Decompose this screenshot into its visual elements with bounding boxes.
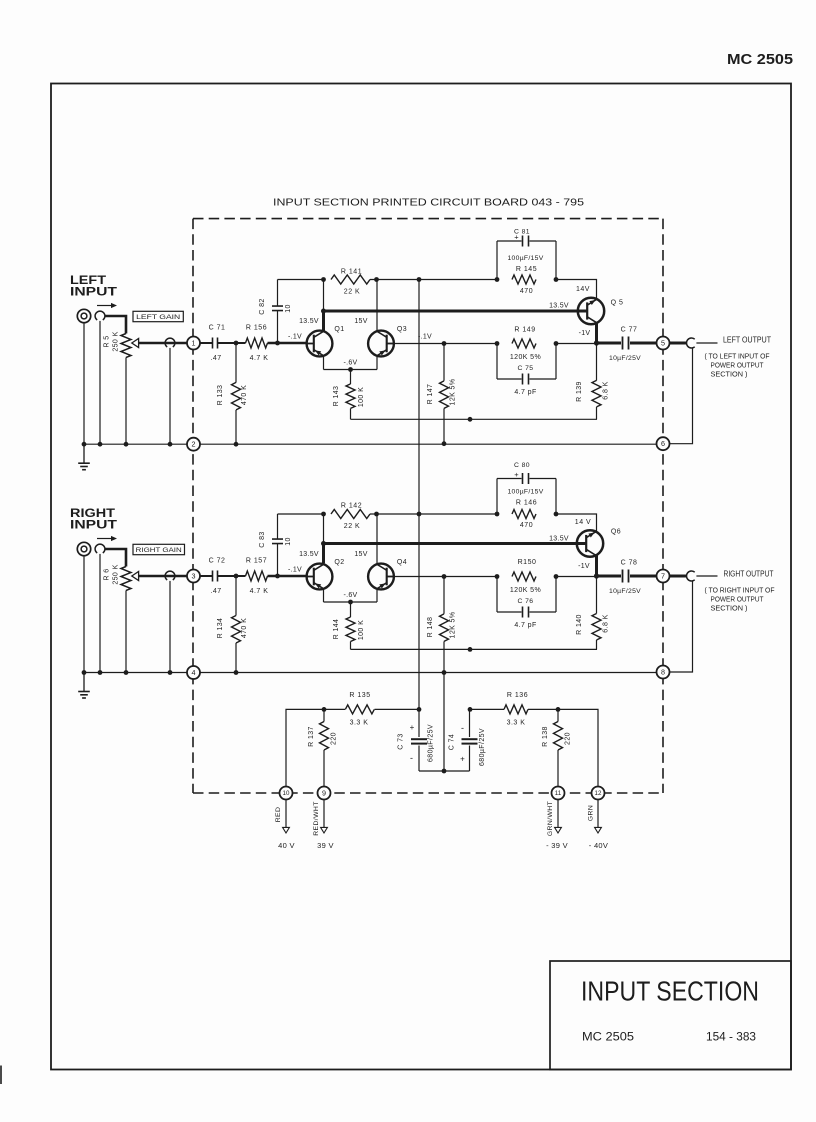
wire output row to C78 bbox=[597, 575, 622, 578]
svg-text:-.1V: -.1V bbox=[288, 567, 302, 574]
wire C78 to node 7 bbox=[630, 575, 657, 578]
svg-text:6.8 K: 6.8 K bbox=[603, 381, 610, 399]
resistor R143 100K bbox=[350, 370, 352, 385]
ground symbol left bbox=[83, 444, 85, 463]
wire Q5 emitter to output row bbox=[595, 323, 598, 344]
svg-text:RIGHT GAIN: RIGHT GAIN bbox=[136, 547, 182, 554]
node 9 bbox=[318, 787, 331, 800]
svg-text:RED: RED bbox=[275, 807, 282, 823]
svg-text:GRN: GRN bbox=[588, 805, 595, 821]
svg-text:R150: R150 bbox=[518, 559, 537, 566]
wire node7 to right output jack bbox=[670, 575, 687, 578]
svg-text:250 K: 250 K bbox=[113, 564, 120, 584]
svg-text:100 K: 100 K bbox=[358, 620, 365, 640]
svg-text:+: + bbox=[460, 754, 465, 763]
svg-text:220: 220 bbox=[331, 732, 338, 745]
capacitor C74 680uF bbox=[469, 709, 471, 737]
svg-text:+: + bbox=[514, 470, 519, 479]
left input arrow bbox=[97, 305, 112, 307]
wire bias line right channel bbox=[351, 648, 598, 650]
svg-text:R 134: R 134 bbox=[217, 618, 224, 639]
transistor Q2 bbox=[307, 564, 333, 590]
svg-text:Q6: Q6 bbox=[611, 529, 621, 536]
svg-text:GRN/WHT: GRN/WHT bbox=[547, 801, 554, 836]
wire node5 to left output jack bbox=[670, 342, 687, 345]
svg-text:-.1V: -.1V bbox=[418, 333, 432, 340]
wire rail to R136 bbox=[470, 708, 504, 710]
node 6 bbox=[657, 437, 670, 450]
wire R157 to Q2 base bbox=[268, 575, 307, 578]
svg-text:4: 4 bbox=[192, 668, 196, 677]
svg-text:INPUT: INPUT bbox=[70, 520, 117, 532]
wire R141 left to Q1 collector node bbox=[323, 280, 325, 312]
resistor R140 6.8K bbox=[596, 576, 598, 614]
svg-text:R 139: R 139 bbox=[576, 381, 583, 402]
transistor Q4 bbox=[368, 564, 394, 590]
node 8 bbox=[657, 666, 670, 679]
svg-text:R 137: R 137 bbox=[308, 726, 315, 747]
svg-text:R 157: R 157 bbox=[246, 558, 267, 565]
lead node 10 bbox=[285, 800, 287, 828]
svg-text:680µF/25V: 680µF/25V bbox=[428, 724, 435, 762]
resistor R147 12K bbox=[443, 344, 445, 381]
svg-text:22 K: 22 K bbox=[344, 288, 360, 295]
node 11 bbox=[552, 787, 565, 800]
wire R136 to node12 riser bbox=[528, 709, 598, 786]
svg-text:6: 6 bbox=[661, 439, 665, 448]
resistor R150 120K bbox=[495, 574, 500, 579]
svg-text:C 73: C 73 bbox=[398, 733, 405, 749]
svg-text:15V: 15V bbox=[354, 551, 367, 558]
svg-text:MC 2505: MC 2505 bbox=[727, 52, 793, 68]
capacitor C71 bbox=[212, 338, 214, 349]
left output jack bbox=[686, 338, 694, 348]
svg-text:C 74: C 74 bbox=[449, 734, 456, 750]
svg-text:470: 470 bbox=[520, 522, 533, 529]
svg-text:RED/WHT: RED/WHT bbox=[313, 801, 320, 836]
svg-text:22 K: 22 K bbox=[344, 523, 360, 530]
svg-text:RIGHT: RIGHT bbox=[70, 508, 115, 520]
svg-text:+: + bbox=[410, 723, 415, 732]
svg-text:+: + bbox=[514, 233, 519, 242]
svg-text:10: 10 bbox=[285, 537, 292, 546]
wire Q6 emitter to output row bbox=[595, 555, 598, 576]
svg-text:470 K: 470 K bbox=[241, 618, 248, 638]
svg-text:39 V: 39 V bbox=[317, 841, 334, 850]
node 7 bbox=[657, 570, 670, 583]
svg-text:4.7 pF: 4.7 pF bbox=[514, 622, 536, 629]
capacitor C78 bbox=[622, 570, 624, 583]
thick wire Q1 collector to Q5 base bbox=[322, 311, 325, 331]
svg-text:3.3 K: 3.3 K bbox=[507, 720, 526, 727]
svg-text:R 146: R 146 bbox=[516, 499, 537, 506]
wire bias line left channel bbox=[351, 418, 598, 420]
svg-text:C 75: C 75 bbox=[518, 365, 534, 372]
svg-text:R 149: R 149 bbox=[514, 326, 535, 333]
resistor R139 6.8K bbox=[596, 343, 598, 381]
lead node 11 bbox=[557, 800, 559, 828]
svg-text:10µF/25V: 10µF/25V bbox=[609, 588, 641, 595]
wire wiper to node 1 bbox=[139, 342, 187, 345]
registration mark bottom left bbox=[0, 1066, 2, 1085]
title block bbox=[550, 961, 791, 1070]
svg-text:4.7 K: 4.7 K bbox=[250, 355, 269, 362]
resistor R133 470K bbox=[235, 343, 237, 383]
svg-text:RIGHT OUTPUT: RIGHT OUTPUT bbox=[724, 570, 774, 579]
wire node8 to jack shield bbox=[670, 581, 693, 672]
svg-text:- 39 V: - 39 V bbox=[546, 841, 568, 850]
wire R146 to Q6 collector bbox=[556, 514, 597, 531]
resistor R136 3.3K bbox=[504, 705, 528, 714]
svg-text:14 V: 14 V bbox=[575, 519, 591, 526]
svg-text:120K 5%: 120K 5% bbox=[510, 354, 541, 361]
svg-text:10: 10 bbox=[283, 790, 290, 797]
wire wiper to node 3 bbox=[139, 575, 187, 578]
transistor Q6 bbox=[577, 530, 603, 556]
dashed PCB boundary box bbox=[193, 218, 663, 220]
wire output row to C77 bbox=[597, 342, 622, 345]
svg-text:R 135: R 135 bbox=[349, 692, 370, 699]
svg-text:R 6: R 6 bbox=[104, 568, 111, 580]
svg-text:Q1: Q1 bbox=[334, 326, 344, 333]
svg-text:12K 5%: 12K 5% bbox=[450, 612, 457, 639]
svg-text:( TO RIGHT INPUT OF: ( TO RIGHT INPUT OF bbox=[705, 588, 775, 595]
svg-text:10µF/25V: 10µF/25V bbox=[609, 355, 641, 362]
wire R6 bottom bbox=[125, 591, 127, 673]
svg-text:13.5V: 13.5V bbox=[549, 536, 569, 543]
left input contact bbox=[95, 311, 105, 320]
svg-text:5: 5 bbox=[661, 339, 665, 348]
resistor R156 bbox=[246, 338, 268, 348]
wire node10 riser bbox=[286, 709, 345, 786]
svg-text:R 142: R 142 bbox=[341, 502, 362, 509]
svg-text:R 136: R 136 bbox=[507, 692, 528, 699]
wire Q4 base to R150 bbox=[394, 576, 497, 578]
ground symbol right bbox=[83, 673, 85, 692]
outer border frame bbox=[51, 84, 791, 1070]
wire C71 to R156 bbox=[218, 342, 246, 344]
svg-text:C 80: C 80 bbox=[514, 462, 530, 469]
svg-text:LEFT OUTPUT: LEFT OUTPUT bbox=[723, 336, 771, 345]
svg-text:3.3 K: 3.3 K bbox=[350, 720, 369, 727]
svg-text:470 K: 470 K bbox=[241, 385, 248, 405]
svg-text:-1V: -1V bbox=[579, 330, 591, 337]
wire left jack to pot bbox=[105, 316, 126, 334]
capacitor C83 bbox=[277, 544, 279, 576]
svg-text:13.5V: 13.5V bbox=[299, 551, 319, 558]
ground bus node 4 bbox=[84, 672, 187, 674]
capacitor C80 bbox=[496, 479, 498, 515]
svg-text:-: - bbox=[410, 753, 413, 763]
wire right jack to pot bbox=[105, 549, 126, 567]
svg-text:R 143: R 143 bbox=[333, 386, 340, 407]
resistor R148 12K bbox=[443, 577, 445, 614]
svg-text:154 - 383: 154 - 383 bbox=[706, 1032, 756, 1044]
svg-text:1: 1 bbox=[192, 339, 196, 348]
resistor R135 3.3K bbox=[345, 705, 374, 714]
wire Q4 collector bbox=[376, 514, 378, 564]
svg-text:-.1V: -.1V bbox=[288, 333, 302, 340]
svg-text:C 76: C 76 bbox=[518, 598, 534, 605]
wire Q3 collector bbox=[376, 280, 378, 331]
svg-text:100µF/15V: 100µF/15V bbox=[507, 488, 543, 495]
right input contact bbox=[95, 544, 105, 553]
wire R145 to Q5 collector bbox=[556, 280, 597, 299]
left input jack J-L bbox=[77, 309, 90, 322]
svg-text:INPUT SECTION: INPUT SECTION bbox=[581, 976, 759, 1007]
svg-text:12K 5%: 12K 5% bbox=[450, 379, 457, 406]
node 3 bbox=[187, 570, 200, 583]
svg-text:Q4: Q4 bbox=[397, 559, 407, 566]
wire left jack ground bbox=[83, 323, 85, 445]
right output jack bbox=[686, 571, 694, 581]
potentiometer R6 bbox=[121, 567, 131, 591]
svg-text:3: 3 bbox=[192, 572, 196, 581]
svg-text:Q 5: Q 5 bbox=[611, 299, 624, 306]
resistor R157 bbox=[246, 571, 268, 581]
wire emitters Q1 Q3 bbox=[323, 356, 325, 370]
wire capacitor midpoint bbox=[419, 770, 470, 772]
svg-text:15V: 15V bbox=[354, 318, 367, 325]
capacitor C76 bbox=[496, 577, 498, 613]
resistor R138 220 bbox=[557, 709, 559, 721]
capacitor C77 bbox=[622, 337, 624, 350]
svg-text:680µF/25V: 680µF/25V bbox=[479, 728, 486, 766]
resistor R145 470 bbox=[495, 277, 500, 282]
svg-text:C 78: C 78 bbox=[621, 560, 638, 567]
wire R156 to Q1 base bbox=[268, 342, 307, 345]
svg-text:8: 8 bbox=[661, 668, 665, 677]
wire Q3 base to R149 bbox=[394, 343, 497, 345]
svg-text:470: 470 bbox=[520, 288, 533, 295]
potentiometer R5 bbox=[121, 334, 131, 358]
svg-text:220: 220 bbox=[565, 732, 572, 745]
svg-text:-.6V: -.6V bbox=[343, 592, 357, 599]
resistor R142 22K bbox=[321, 512, 326, 517]
svg-text:C 71: C 71 bbox=[209, 324, 226, 331]
capacitor C82 bbox=[277, 311, 279, 343]
wire R135 to C73 bbox=[375, 708, 420, 710]
node 12 bbox=[592, 787, 605, 800]
svg-text:( TO LEFT INPUT OF: ( TO LEFT INPUT OF bbox=[705, 353, 770, 360]
ground bus node 2 bbox=[84, 443, 187, 445]
svg-text:INPUT: INPUT bbox=[70, 287, 117, 299]
wire C77 to node 5 bbox=[630, 342, 657, 345]
svg-text:MC 2505: MC 2505 bbox=[582, 1032, 634, 1044]
svg-text:R 5: R 5 bbox=[104, 335, 111, 347]
wire R142 to R146 bbox=[370, 513, 497, 515]
svg-text:-.6V: -.6V bbox=[343, 359, 357, 366]
svg-text:C 77: C 77 bbox=[621, 326, 638, 333]
svg-text:7: 7 bbox=[661, 572, 665, 581]
node 1 bbox=[187, 337, 200, 350]
resistor R141 22K bbox=[321, 277, 326, 282]
svg-text:4.7 K: 4.7 K bbox=[250, 588, 269, 595]
svg-text:-1V: -1V bbox=[578, 563, 590, 570]
resistor R144 100K bbox=[350, 602, 352, 617]
svg-text:100µF/15V: 100µF/15V bbox=[507, 255, 543, 262]
resistor R137 220 bbox=[323, 709, 325, 721]
svg-text:C 72: C 72 bbox=[209, 558, 226, 565]
node 4 bbox=[187, 666, 200, 679]
capacitor C81 bbox=[496, 241, 498, 280]
node 2 bbox=[187, 438, 200, 451]
wire R5 bottom bbox=[125, 358, 127, 445]
svg-text:9: 9 bbox=[322, 789, 326, 798]
svg-text:Q2: Q2 bbox=[334, 559, 344, 566]
wire rail R141 junction down bbox=[418, 280, 420, 710]
svg-text:C 83: C 83 bbox=[259, 531, 266, 547]
svg-text:12: 12 bbox=[595, 790, 602, 797]
svg-text:R 133: R 133 bbox=[217, 385, 224, 406]
svg-text:- 40V: - 40V bbox=[589, 841, 608, 850]
svg-text:10: 10 bbox=[285, 304, 292, 313]
svg-text:14V: 14V bbox=[576, 286, 590, 293]
svg-text:13.5V: 13.5V bbox=[549, 302, 569, 309]
wire right jack ground bbox=[83, 556, 85, 673]
wire R148 to capacitor midpoint bbox=[443, 673, 445, 772]
svg-text:13.5V: 13.5V bbox=[299, 318, 319, 325]
resistor R149 120K bbox=[495, 341, 500, 346]
node 10 bbox=[280, 787, 293, 800]
wire node3 to C72 bbox=[200, 575, 212, 577]
wire C72 to R157 bbox=[218, 575, 246, 577]
thick wire Q2 collector to Q6 base bbox=[322, 544, 325, 564]
svg-text:.47: .47 bbox=[210, 588, 221, 595]
svg-text:POWER OUTPUT: POWER OUTPUT bbox=[711, 362, 765, 369]
svg-text:LEFT GAIN: LEFT GAIN bbox=[136, 314, 180, 321]
svg-text:R 148: R 148 bbox=[427, 617, 434, 638]
svg-text:4.7 pF: 4.7 pF bbox=[514, 389, 536, 396]
svg-text:120K 5%: 120K 5% bbox=[510, 587, 541, 594]
svg-text:R 156: R 156 bbox=[246, 324, 267, 331]
wire node1 to C71 bbox=[200, 342, 212, 344]
label RIGHT GAIN bbox=[133, 544, 185, 554]
wire emitters Q2 Q4 bbox=[323, 589, 325, 602]
right gain contact bbox=[165, 571, 175, 580]
wire node6 to jack shield bbox=[670, 348, 693, 444]
svg-text:R 141: R 141 bbox=[341, 268, 362, 275]
svg-text:R 140: R 140 bbox=[576, 614, 583, 635]
svg-text:R 147: R 147 bbox=[427, 384, 434, 405]
svg-text:LEFT: LEFT bbox=[70, 275, 106, 287]
transistor Q3 bbox=[368, 331, 394, 357]
svg-text:R 145: R 145 bbox=[516, 266, 537, 273]
right input jack J-R bbox=[77, 542, 90, 555]
capacitor C75 bbox=[496, 344, 498, 380]
capacitor C72 bbox=[212, 571, 214, 582]
right input arrow bbox=[97, 538, 112, 540]
transistor Q1 bbox=[307, 331, 333, 357]
lead node 9 bbox=[323, 800, 325, 828]
svg-text:40 V: 40 V bbox=[278, 841, 295, 850]
svg-text:100 K: 100 K bbox=[358, 387, 365, 407]
wire R142 left to Q2 collector node bbox=[323, 514, 325, 544]
node 5 bbox=[657, 337, 670, 350]
resistor R134 470K bbox=[235, 576, 237, 616]
svg-text:Q3: Q3 bbox=[397, 326, 407, 333]
svg-text:6.8 K: 6.8 K bbox=[603, 614, 610, 632]
svg-text:2: 2 bbox=[192, 440, 196, 449]
left gain contact bbox=[165, 338, 175, 347]
wire R141 to R145 bbox=[370, 279, 497, 281]
resistor R146 470 bbox=[495, 512, 500, 517]
lead node 12 bbox=[597, 800, 599, 828]
svg-text:R 144: R 144 bbox=[333, 619, 340, 640]
svg-text:-: - bbox=[461, 723, 464, 733]
svg-text:SECTION ): SECTION ) bbox=[711, 371, 748, 378]
svg-text:INPUT SECTION PRINTED CIRCUIT: INPUT SECTION PRINTED CIRCUIT BOARD 043 … bbox=[273, 197, 584, 209]
label LEFT GAIN bbox=[133, 311, 183, 321]
svg-text:.47: .47 bbox=[210, 355, 221, 362]
svg-text:R 138: R 138 bbox=[542, 726, 549, 747]
svg-text:C 82: C 82 bbox=[259, 298, 266, 314]
svg-text:SECTION ): SECTION ) bbox=[711, 606, 748, 613]
svg-text:POWER OUTPUT: POWER OUTPUT bbox=[711, 597, 765, 604]
svg-text:11: 11 bbox=[555, 790, 562, 797]
transistor Q5 bbox=[578, 298, 604, 324]
capacitor C73 680uF bbox=[418, 709, 420, 737]
svg-text:250 K: 250 K bbox=[113, 331, 120, 351]
